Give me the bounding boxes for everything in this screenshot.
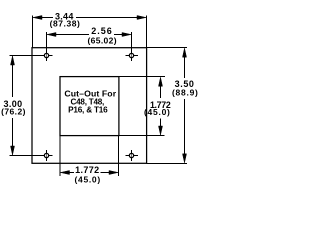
svg-text:(45.0): (45.0)	[74, 174, 100, 184]
svg-text:(45.0): (45.0)	[144, 107, 171, 117]
svg-text:2.56: 2.56	[91, 26, 113, 36]
svg-text:P16, & T16: P16, & T16	[68, 106, 108, 115]
svg-text:(88.9): (88.9)	[172, 88, 199, 98]
svg-text:(87.38): (87.38)	[50, 19, 81, 29]
svg-text:(76.2): (76.2)	[1, 107, 26, 117]
svg-text:(65.02): (65.02)	[87, 36, 116, 46]
